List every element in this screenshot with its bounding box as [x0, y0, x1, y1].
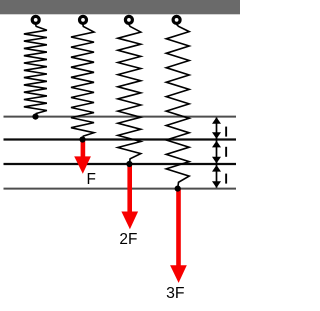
reference line A (natural length)	[4, 116, 237, 118]
dim arrowhead up at line A	[212, 117, 221, 124]
dim arrowhead down at line D	[212, 181, 221, 188]
length label l gap 1	[225, 127, 227, 137]
svg-text:F: F	[87, 171, 96, 188]
end dot spring 1	[32, 114, 38, 120]
spring 1 (unstretched)	[24, 24, 47, 116]
dim arrowhead up below line B	[212, 141, 221, 148]
hanger ring 1	[32, 16, 39, 23]
length label l gap 3	[225, 174, 227, 184]
spring 2 (stretched by F)	[71, 24, 94, 139]
spring 3 (stretched by 2F)	[118, 24, 141, 164]
svg-text:2F: 2F	[119, 231, 137, 248]
hanger ring 2	[80, 16, 87, 23]
force arrow 2F	[121, 164, 138, 229]
force arrow F	[74, 140, 91, 174]
ceiling bar	[0, 0, 240, 14]
reference line D (extension 3l)	[4, 188, 237, 190]
end dot spring 3	[126, 161, 132, 167]
end dot spring 4	[175, 186, 181, 192]
dim arrowhead up below line C	[212, 165, 221, 172]
dimension line	[216, 118, 218, 188]
hanger ring 4	[173, 16, 180, 23]
force arrow 3F	[170, 189, 187, 283]
spring 4 (stretched by 3F)	[166, 24, 189, 188]
svg-text:3F: 3F	[166, 285, 185, 302]
hanger ring 3	[125, 16, 132, 23]
reference line C (extension 2l)	[4, 163, 237, 165]
length label l gap 2	[225, 147, 227, 157]
reference line B (extension l)	[4, 138, 237, 140]
end dot spring 2	[79, 136, 85, 142]
dim arrowhead down at line B	[212, 132, 221, 139]
dim arrowhead down at line C	[212, 157, 221, 164]
